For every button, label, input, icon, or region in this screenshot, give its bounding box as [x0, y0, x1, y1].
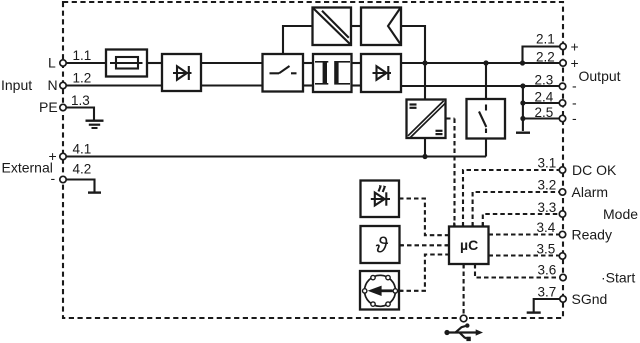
terminal 2.2: [560, 60, 566, 66]
pin stub temperature right: [400, 244, 404, 246]
svg-text:-: -: [572, 78, 577, 94]
wire DC/DC bottom pin: [424, 138, 426, 157]
dashed signal uC to 3.4: [489, 233, 559, 235]
wire negative bus vertical: [522, 86, 524, 131]
functional earth output: [516, 131, 530, 133]
wire negative bus diode to output node: [401, 85, 523, 87]
wire L from terminal 1.1 to fuse: [67, 62, 107, 64]
wire to terminal 2.5: [523, 117, 559, 119]
dashed signal uC to 3.6: [475, 264, 559, 278]
wire N transformer to diode: [352, 84, 362, 86]
wire output switch bottom pin: [485, 139, 487, 157]
functional earth SGnd: [527, 311, 541, 313]
dashed signal uC to USB port: [463, 264, 465, 315]
terminal 3.4: [559, 231, 565, 237]
terminal 4.1: [60, 153, 66, 159]
svg-text:2.3: 2.3: [535, 73, 554, 88]
svg-text:·Start: ·Start: [601, 270, 635, 286]
terminal 3.1: [559, 167, 565, 173]
earth ground PE: [86, 121, 104, 128]
regulator block with diagonal: [313, 8, 352, 46]
wire L rectifier to switch: [201, 62, 263, 64]
transformer block: [313, 54, 352, 92]
wire feedback block to positive bus: [401, 26, 425, 63]
pin stub rotary right: [399, 290, 403, 292]
functional earth external: [88, 191, 101, 193]
dashed signal LED to uC: [399, 199, 449, 236]
svg-text:1.2: 1.2: [73, 71, 92, 86]
svg-text:-: -: [572, 95, 577, 111]
svg-text:Mode: Mode: [603, 206, 638, 222]
terminal 1.3: [60, 104, 66, 110]
wire N rectifier to switch: [201, 84, 263, 86]
wire L transformer to diode: [352, 62, 362, 64]
svg-text:Input: Input: [1, 77, 32, 93]
terminal 3.3: [559, 211, 565, 217]
svg-text:L: L: [48, 55, 56, 71]
junction node external plus / DC-DC: [422, 154, 427, 159]
junction node positive bus / 2.1 branch: [520, 60, 525, 65]
dashed signal DC/DC to uC: [446, 119, 455, 227]
wire output branch to 2.1: [523, 47, 560, 64]
wire external plus bus: [67, 155, 487, 157]
terminal 3.2: [559, 189, 565, 195]
junction node negative bus 2.4: [520, 100, 525, 105]
wire DC/DC top pin: [424, 63, 426, 100]
dashed signal uC to 3.3: [483, 214, 559, 227]
wire L fuse to rectifier: [147, 62, 162, 64]
terminal 3.6: [560, 274, 566, 280]
svg-text:2.5: 2.5: [535, 105, 554, 120]
wire positive bus diode to terminal 2.2: [401, 62, 560, 64]
svg-text:3.5: 3.5: [537, 242, 556, 257]
wire N from terminal 1.2 to rectifier: [67, 84, 163, 86]
svg-text:+: +: [49, 148, 57, 164]
wire to terminal 2.3: [523, 85, 559, 87]
svg-text:2.1: 2.1: [536, 32, 555, 47]
svg-text:Ready: Ready: [572, 227, 612, 243]
svg-text:1.1: 1.1: [73, 48, 92, 63]
svg-text:PE: PE: [39, 99, 58, 115]
terminal 1.1: [60, 60, 66, 66]
wire PE terminal 1.3 to earth: [67, 108, 95, 120]
input switch block: [263, 54, 304, 92]
feedback block with chevron: [361, 8, 401, 46]
svg-text:Output: Output: [579, 68, 621, 84]
DC/DC converter block: [407, 100, 446, 139]
svg-text:3.2: 3.2: [538, 178, 557, 193]
junction node negative bus 2.5: [520, 116, 525, 121]
terminal 4.2: [60, 176, 66, 182]
svg-text:3.4: 3.4: [537, 220, 556, 235]
terminal 1.2: [60, 82, 66, 88]
wire external minus to earth: [67, 180, 95, 192]
wire between converter block and feedback block: [351, 25, 361, 27]
wire switch top feedback up: [283, 26, 313, 54]
svg-text:4.2: 4.2: [73, 162, 92, 177]
wire SGnd terminal 3.7 to earth: [534, 299, 560, 312]
terminal 2.1: [560, 43, 566, 49]
svg-text:-: -: [51, 170, 56, 186]
svg-text:-: -: [572, 110, 577, 126]
temperature sensor block: [361, 226, 400, 263]
svg-text:µC: µC: [460, 237, 478, 253]
svg-text:1.3: 1.3: [71, 93, 90, 108]
LED indicator block: [361, 181, 400, 218]
terminal 3.7: [560, 296, 566, 302]
terminal 3.5: [559, 253, 565, 259]
svg-text:+: +: [571, 55, 579, 71]
dashed signal uC to 3.2: [473, 192, 559, 227]
rotary selector block: [360, 271, 399, 310]
terminal 2.5: [559, 115, 565, 121]
svg-text:3.7: 3.7: [538, 285, 557, 300]
svg-text:ϑ: ϑ: [376, 233, 389, 258]
terminal 2.3: [559, 83, 565, 89]
terminal 2.4: [559, 100, 565, 106]
svg-text:+: +: [571, 39, 579, 55]
fuse F1: [106, 50, 147, 77]
svg-text:2.2: 2.2: [536, 50, 555, 65]
pin stub DC/DC right: [446, 117, 449, 119]
rectifier diode block: [162, 54, 201, 91]
wire output switch top pin: [485, 63, 487, 99]
pin stub LED right: [399, 197, 403, 199]
junction node positive bus / DC-DC: [422, 60, 427, 65]
svg-text:Alarm: Alarm: [572, 184, 609, 200]
USB symbol: [444, 323, 483, 341]
dashed signal uC to 3.1: [463, 170, 559, 227]
device boundary dashed box: [63, 2, 563, 318]
dashed signal rotary to uC: [399, 255, 449, 291]
USB port circle on boundary: [460, 315, 467, 322]
dashed signal uC to 3.5: [489, 254, 559, 256]
svg-text:DC OK: DC OK: [572, 162, 617, 178]
svg-text:3.3: 3.3: [538, 200, 557, 215]
svg-text:External: External: [2, 160, 53, 176]
junction node positive bus / output switch: [483, 60, 488, 65]
output diode block: [361, 54, 401, 92]
svg-text:N: N: [48, 77, 58, 93]
svg-text:2.4: 2.4: [535, 90, 554, 105]
svg-text:4.1: 4.1: [73, 142, 92, 157]
output switch block: [467, 99, 506, 139]
wire to terminal 2.4: [523, 102, 559, 104]
wire L switch to transformer: [303, 62, 313, 64]
svg-text:3.1: 3.1: [538, 156, 557, 171]
svg-text:3.6: 3.6: [538, 263, 557, 278]
wire N switch to transformer: [303, 84, 313, 86]
dashed signal temperature to uC: [400, 244, 450, 246]
junction node negative bus 2.3: [520, 83, 525, 88]
microcontroller block: [446, 223, 493, 269]
svg-text:SGnd: SGnd: [572, 291, 608, 307]
